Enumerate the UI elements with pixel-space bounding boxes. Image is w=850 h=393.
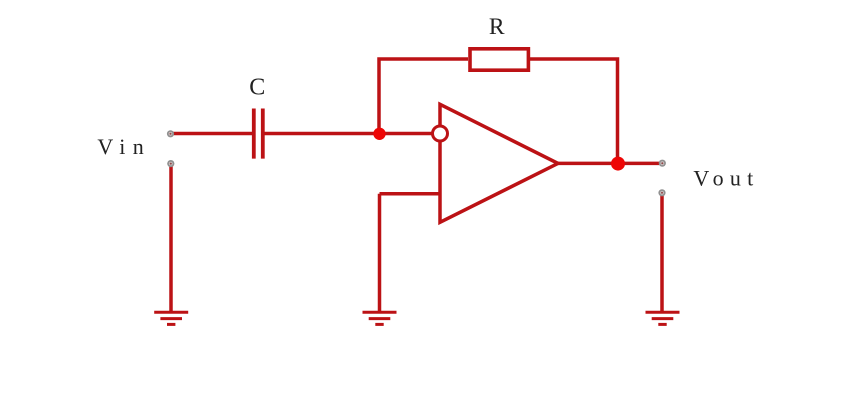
op-amp U1 — [440, 104, 558, 222]
op-amp inverting input bubble — [433, 126, 448, 141]
wire capacitor to op-amp inverting input (through node A) — [265, 132, 432, 136]
resistor R — [470, 49, 528, 70]
Vin upper terminal — [167, 130, 174, 137]
wire input terminal to capacitor — [172, 132, 253, 136]
ground (non-inverting input) — [363, 312, 397, 324]
wire resistor to right vertical down to output node — [530, 59, 618, 163]
wire Vin lower terminal to ground — [169, 166, 173, 312]
svg-text:C: C — [249, 74, 265, 100]
wire feedback left vertical + top horizontal to resistor — [379, 59, 468, 135]
capacitor C — [254, 109, 263, 159]
wire op-amp output to node B — [557, 162, 659, 166]
Vout lower terminal — [658, 189, 665, 196]
node B junction dot (output node) — [611, 157, 625, 171]
wire non-inverting input horizontal — [380, 192, 441, 196]
Vout upper terminal — [659, 160, 666, 167]
svg-text:Vin: Vin — [97, 134, 143, 159]
svg-text:R: R — [489, 14, 505, 40]
ground (Vout) — [646, 312, 680, 324]
node A junction dot (inverting input node) — [373, 128, 385, 140]
wire non-inverting input down to ground — [378, 194, 382, 312]
wire Vout lower terminal to ground — [660, 196, 664, 313]
ground (Vin) — [154, 312, 188, 324]
Vin lower terminal — [167, 160, 174, 167]
